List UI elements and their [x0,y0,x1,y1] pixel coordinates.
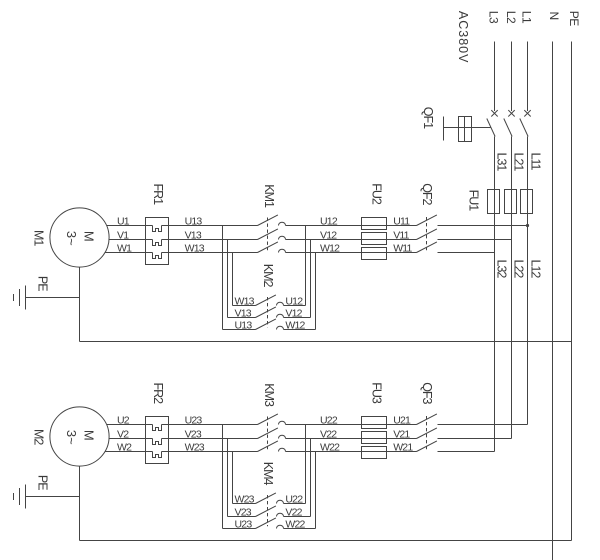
contactor KM4 contact row2 [256,506,276,517]
svg-text:3~: 3~ [64,231,79,246]
contactor KM2 contact row1 [256,295,276,306]
linkage dashed KM1 [267,218,269,251]
breaker QF1 actuator box [459,117,472,142]
wire W22 KM4 row3 up to main [284,528,316,530]
heater element FR1 phase W [153,253,162,259]
heater element FR2 phase V [153,439,162,445]
svg-text:V22: V22 [285,507,302,519]
svg-text:W13: W13 [185,242,205,254]
ground symbol motor M2 [25,485,27,509]
svg-text:V22: V22 [320,429,337,441]
breaker QF1 blade [487,119,495,137]
linkage dashed KM2 [267,297,269,327]
svg-text:U23: U23 [185,414,203,426]
svg-text:W22: W22 [285,519,305,531]
svg-text:L3: L3 [487,11,501,24]
wire U2 motor M2 to FR2 [107,424,153,426]
branch wire V13 down to KM2 [227,240,229,318]
fuse FU2 phase V [362,233,387,245]
motor M2 [50,407,109,466]
svg-text:W23: W23 [235,493,255,505]
fuse FU1 [505,190,517,214]
branch wire W23 down to KM4 [222,425,224,529]
svg-text:V12: V12 [320,230,337,242]
svg-text:FU1: FU1 [467,190,481,212]
svg-text:W12: W12 [320,243,340,255]
contactor KM4 contact row1 [256,493,276,504]
wire W12 KM2 row3 up to main [284,329,316,331]
svg-text:M: M [81,430,96,441]
wire V22 KM3 through FU3 to QF3 [286,438,417,440]
svg-text:FR1: FR1 [151,184,165,206]
fuse FU2 phase W [362,248,387,260]
fuse FU3 phase V [362,432,387,444]
contactor KM3 contact W [258,441,278,452]
svg-text:U22: U22 [285,494,303,506]
wire V2 motor M2 to FR2 [109,438,152,440]
wire W11 QF2 to L32 [438,252,495,254]
svg-text:W2: W2 [117,442,132,454]
fuse FU3 phase U [362,417,387,429]
heater element FR2 phase W [153,452,162,458]
svg-text:U22: U22 [320,415,338,427]
branch wire W13 down to KM2 [222,226,224,330]
wire V11 QF2 to L22 [438,239,512,241]
breaker QF1 blade [520,119,528,137]
svg-text:FU3: FU3 [369,382,383,404]
fuse FU2 phase U [362,218,387,230]
contactor KM2 contact row2 [256,307,276,318]
svg-text:V2: V2 [117,429,129,441]
contactor KM1 contact U [258,215,278,226]
svg-text:L32: L32 [495,260,509,279]
fuse FU1 [488,190,500,214]
svg-text:V11: V11 [393,229,409,241]
svg-text:U2: U2 [117,415,130,427]
svg-text:V12: V12 [285,308,302,320]
svg-text:U12: U12 [285,296,303,308]
wire U11 QF2 to L12 [438,225,528,227]
contactor KM1 contact W [258,242,278,253]
svg-text:PE: PE [567,11,581,27]
linkage dashed QF3 [426,416,428,449]
wire W12 KM1 through FU2 to QF2 [286,252,417,254]
wire bus N [552,42,554,560]
svg-text:W12: W12 [285,320,305,332]
wire W2 motor M2 to FR2 [105,451,152,453]
wire motor M1 frame down [79,267,81,341]
breaker QF1 handle bar [443,117,445,141]
svg-text:V1: V1 [117,230,129,242]
wire bus L2 [511,42,513,112]
wire L31 [494,137,496,452]
heater element FR1 phase U [153,226,162,232]
linkage dashed KM3 [267,417,269,450]
heater element FR2 phase U [153,425,162,431]
svg-text:U11: U11 [393,215,410,227]
svg-text:V13: V13 [185,229,202,241]
wire W22 KM3 through FU3 to QF3 [286,451,417,453]
wire L11 [527,137,529,425]
svg-text:QF1: QF1 [421,107,435,129]
svg-text:3~: 3~ [64,430,79,445]
contactor KM2 contact row3 [256,319,276,330]
svg-text:W11: W11 [393,242,412,254]
svg-text:L11: L11 [529,153,543,171]
wire U22 KM4 row1 up to main [284,503,306,505]
svg-text:L22: L22 [512,260,526,279]
wire bus PE [571,42,573,541]
svg-text:M2: M2 [32,429,46,445]
svg-text:W1: W1 [117,243,132,255]
svg-text:KM2: KM2 [261,264,275,288]
svg-text:AC380V: AC380V [456,11,470,64]
svg-text:QF2: QF2 [420,183,434,205]
wire V12 KM1 through FU2 to QF2 [286,239,417,241]
breaker QF1 fixed contact cross [491,110,497,116]
svg-text:U1: U1 [117,216,130,228]
wire bus L3 [494,42,496,112]
contactor KM4 contact row3 [256,518,276,529]
svg-text:U21: U21 [393,414,411,426]
wire PE ground to motor M2 frame [26,496,80,498]
contactor KM1 contact V [258,229,278,240]
heater element FR1 phase V [153,240,162,246]
svg-text:W23: W23 [185,441,205,453]
svg-text:M1: M1 [32,230,46,246]
fuse FU3 phase W [362,447,387,459]
breaker QF3 contact W [417,441,437,452]
wire V1 motor M1 to FR1 [109,239,152,241]
svg-text:KM3: KM3 [262,383,276,407]
wire V12 KM2 row2 up to main [284,317,311,319]
breaker QF3 contact V [417,428,437,439]
wire V21 QF3 to L22 [438,438,512,440]
contactor KM3 contact U [258,414,278,425]
thermal relay FR1 [146,218,169,265]
wire U21 QF3 to L12 [438,424,528,426]
wire U12 KM1 through FU2 to QF2 [286,225,417,227]
wire motor M2 frame down [79,466,81,540]
svg-text:L12: L12 [529,260,543,279]
wire motor M2 frame to PE bus [80,540,572,542]
svg-text:N: N [547,12,561,20]
svg-text:KM1: KM1 [262,184,276,208]
svg-text:U13: U13 [185,215,203,227]
wire U12 KM2 row1 up to main [284,305,306,307]
svg-text:V21: V21 [393,428,410,440]
wire U1 motor M1 to FR1 [107,225,153,227]
wire PE bottom return [80,540,572,542]
branch wire U13 down to KM2 [232,253,234,306]
svg-text:W13: W13 [235,295,255,307]
svg-text:M: M [81,231,96,242]
breaker QF2 contact W [417,242,437,253]
wire bus L1 [527,42,529,112]
svg-text:V23: V23 [185,428,202,440]
breaker QF1 blade [504,119,512,137]
breaker QF1 fixed contact cross [508,110,514,116]
breaker QF3 contact U [417,414,437,425]
svg-text:L31: L31 [495,153,509,172]
breaker QF1 linkage [444,127,491,129]
wire W1 motor M1 to FR1 [105,252,152,254]
wire W21 QF3 to L32 [438,451,495,453]
wire motor M1 frame to PE bus [80,341,572,343]
breaker QF2 contact U [417,215,437,226]
svg-text:FR2: FR2 [151,383,165,405]
breaker QF2 contact V [417,229,437,240]
svg-text:QF3: QF3 [420,382,434,404]
fuse FU1 [521,190,533,214]
thermal relay FR2 [146,417,169,464]
svg-text:PE: PE [35,475,49,490]
svg-text:L21: L21 [512,153,526,172]
svg-text:U23: U23 [235,518,253,530]
svg-text:KM4: KM4 [261,462,275,486]
wire U22 KM3 through FU3 to QF3 [286,424,417,426]
svg-text:W22: W22 [320,442,340,454]
svg-text:U12: U12 [320,216,338,228]
branch wire U23 down to KM4 [232,452,234,504]
motor M1 [50,208,109,267]
wire PE ground to motor M1 frame [26,297,80,299]
svg-text:FU2: FU2 [369,183,383,205]
svg-text:U13: U13 [235,319,253,331]
ground symbol motor M1 [25,286,27,310]
linkage dashed KM4 [267,495,269,526]
junction node U11 on L12 [526,224,529,227]
svg-text:V23: V23 [235,506,252,518]
breaker QF1 fixed contact cross [524,110,530,116]
svg-text:V13: V13 [235,307,252,319]
svg-text:L1: L1 [520,11,534,24]
linkage dashed QF2 [426,217,428,250]
svg-text:W21: W21 [393,441,413,453]
svg-text:PE: PE [35,276,49,291]
wire V22 KM4 row2 up to main [284,516,311,518]
svg-text:L2: L2 [504,11,518,24]
wire L21 [511,137,513,439]
branch wire V23 down to KM4 [227,439,229,517]
contactor KM3 contact V [258,428,278,439]
